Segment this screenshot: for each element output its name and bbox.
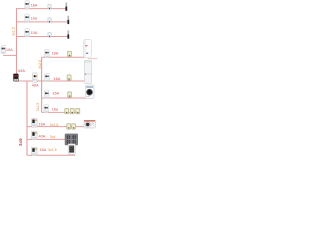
socket XS6 bbox=[70, 108, 74, 114]
breaker QF7 16A washer bbox=[44, 90, 49, 98]
svg-text:3x1,5: 3x1,5 bbox=[36, 103, 40, 112]
breaker QF6 16A fridge bbox=[45, 73, 50, 81]
wire: top trunk vertical bbox=[16, 9, 18, 74]
breaker QF1 16A bbox=[25, 1, 30, 9]
wire: cooktop branch bbox=[27, 138, 68, 140]
svg-text:3x4: 3x4 bbox=[50, 135, 56, 139]
breaker QF4 10A far left bbox=[1, 45, 6, 53]
svg-text:10a: 10a bbox=[31, 17, 38, 21]
svg-text:3x1,5: 3x1,5 bbox=[12, 27, 16, 36]
wire: socket group branch bbox=[42, 111, 78, 113]
svg-text:3x1,5: 3x1,5 bbox=[50, 123, 59, 127]
switch S3 bbox=[48, 32, 52, 37]
oven bbox=[68, 144, 75, 155]
breaker QF11 40A cooktop bbox=[32, 131, 38, 140]
wire: far-left branch bbox=[3, 54, 17, 56]
svg-text:10A: 10A bbox=[31, 31, 38, 35]
socket XS9 bbox=[72, 124, 76, 130]
air conditioner bbox=[84, 120, 95, 128]
RCD QD1 40A bbox=[32, 73, 37, 83]
socket XS2 bbox=[67, 75, 71, 81]
socket XS7 bbox=[76, 108, 80, 114]
svg-text:16A: 16A bbox=[39, 122, 46, 126]
svg-text:16A: 16A bbox=[54, 77, 61, 81]
svg-text:40A: 40A bbox=[32, 83, 39, 87]
cooktop bbox=[65, 134, 78, 145]
wire: lighting branch 1 bbox=[16, 8, 66, 10]
svg-text:16A: 16A bbox=[40, 148, 47, 152]
breaker QF3 10A bbox=[25, 29, 30, 37]
breaker QF12 16A oven bbox=[32, 147, 38, 156]
svg-text:63A: 63A bbox=[18, 69, 25, 73]
lamp EL2 bbox=[67, 16, 69, 24]
wire: oven branch bbox=[27, 154, 75, 156]
socket XS8 bbox=[67, 124, 71, 130]
wire: right trunk bbox=[41, 57, 43, 112]
breaker QF9 16a sockets bbox=[44, 105, 49, 113]
svg-text:40A: 40A bbox=[39, 134, 46, 138]
socket XS1 bbox=[67, 51, 71, 57]
wire: lighting branch 2 bbox=[16, 21, 68, 23]
fridge bbox=[84, 60, 91, 83]
breaker QF10 16A aircon bbox=[32, 119, 38, 128]
lamp EL3 bbox=[67, 30, 69, 38]
wire: lighting branch 3 bbox=[16, 36, 68, 38]
washing machine bbox=[85, 85, 94, 99]
wire: washer branch bbox=[42, 97, 86, 99]
main switch QS1 63A bbox=[13, 74, 18, 81]
wire: lower-left trunk bbox=[26, 81, 28, 155]
svg-text:3x6: 3x6 bbox=[18, 138, 23, 146]
socket XS3 bbox=[68, 92, 72, 98]
svg-text:3x1,5: 3x1,5 bbox=[48, 148, 57, 152]
breaker QF2 10A bbox=[25, 14, 30, 22]
water heater bbox=[84, 39, 92, 57]
svg-text:16A: 16A bbox=[52, 92, 59, 96]
svg-text:3x2,5: 3x2,5 bbox=[38, 60, 42, 69]
switch S1 bbox=[48, 4, 52, 9]
svg-text:10A: 10A bbox=[6, 48, 13, 52]
socket XS5 bbox=[65, 108, 69, 114]
switch S2 bbox=[48, 18, 52, 23]
wire: fridge top stub bbox=[88, 58, 98, 60]
svg-text:16A: 16A bbox=[52, 52, 59, 56]
svg-text:16A: 16A bbox=[31, 3, 38, 7]
breaker QF5 16A boiler bbox=[45, 49, 50, 57]
wire: air conditioner branch bbox=[27, 126, 84, 128]
wire: boiler branch bbox=[42, 56, 85, 58]
wire: main feed bus bbox=[16, 80, 84, 82]
lamp EL1 bbox=[65, 3, 67, 11]
svg-text:16a: 16a bbox=[52, 108, 59, 112]
